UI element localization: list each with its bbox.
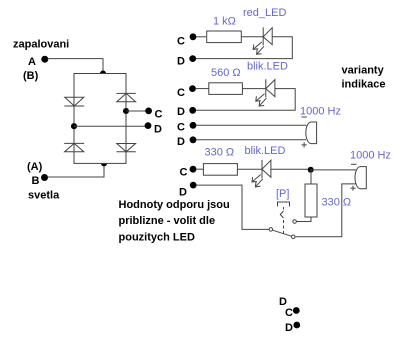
terminal D bridge — [145, 122, 152, 129]
svg-text:Hodnoty odporu jsou: Hodnoty odporu jsou — [119, 199, 230, 211]
svg-text:C: C — [177, 87, 185, 99]
wire node to R5 — [310, 169, 312, 184]
svg-text:D: D — [177, 136, 185, 148]
diode bridge bottom-right — [117, 144, 136, 152]
svg-text:varianty: varianty — [342, 64, 385, 76]
svg-text:D: D — [179, 187, 187, 199]
svg-text:330 Ω: 330 Ω — [322, 197, 352, 209]
push button actuator dashed — [280, 207, 283, 234]
wire D output — [74, 125, 146, 127]
svg-text:D: D — [177, 55, 185, 67]
svg-text:indikace: indikace — [342, 79, 386, 91]
terminal D3 — [190, 136, 197, 143]
terminal C4 — [190, 166, 197, 173]
wire C output — [126, 110, 146, 112]
svg-text:svetla: svetla — [28, 190, 60, 202]
wire C3 to speaker1 — [196, 124, 307, 126]
terminal C2 — [189, 85, 196, 92]
resistor R5 — [305, 184, 317, 217]
label minus SP2 — [351, 163, 357, 165]
resistor R4 — [203, 164, 237, 176]
svg-text:(B): (B) — [23, 70, 39, 82]
wire LED2 loop to D2 — [196, 89, 295, 111]
svg-text:D: D — [285, 322, 293, 334]
svg-text:C: C — [155, 109, 163, 121]
terminal D bottom2 — [293, 322, 300, 329]
wire C1 to R1 — [196, 36, 206, 38]
svg-text:330 Ω: 330 Ω — [205, 147, 235, 159]
svg-text:B: B — [32, 175, 40, 187]
label plus SP2 — [350, 186, 355, 191]
svg-text:560 Ω: 560 Ω — [211, 67, 241, 79]
LED D6 blik — [256, 79, 275, 106]
svg-text:pouzitych LED: pouzitych LED — [119, 232, 195, 244]
diode bridge bottom-left — [64, 143, 84, 151]
terminal A — [41, 56, 48, 63]
svg-text:C: C — [180, 166, 188, 178]
wire R5 to contact — [297, 217, 312, 222]
wire B to bridge bottom — [48, 163, 105, 177]
diode bridge top-left — [64, 97, 84, 106]
speaker SP2 — [355, 167, 366, 189]
svg-text:blik.LED: blik.LED — [247, 61, 288, 73]
wire node to speaker2 — [311, 169, 356, 171]
node bridge mid-left (D) — [71, 123, 77, 129]
svg-text:blik.LED: blik.LED — [245, 145, 286, 157]
LED D7 blik — [252, 160, 271, 187]
contact switch pole — [269, 228, 273, 232]
node bridge bottom — [101, 160, 107, 166]
wire LED4 to node — [271, 168, 311, 170]
terminal C3 — [190, 122, 197, 129]
node bridge mid-right (C) — [123, 108, 129, 114]
wire C4 to R4 — [196, 168, 203, 170]
terminal D2 — [189, 107, 196, 114]
svg-text:C: C — [177, 35, 185, 47]
svg-text:1 kΩ: 1 kΩ — [213, 16, 236, 28]
svg-text:1000 Hz: 1000 Hz — [300, 106, 341, 118]
svg-text:[P]: [P] — [276, 188, 289, 200]
label plus SP1 — [302, 142, 307, 147]
svg-text:red_LED: red_LED — [243, 7, 286, 19]
node LED4/speaker2 — [308, 167, 314, 173]
wire R1 to LED1 — [241, 36, 263, 38]
wire bridge frame — [74, 74, 126, 164]
speaker SP1 — [306, 122, 317, 144]
svg-text:zapalovani: zapalovani — [13, 39, 69, 51]
terminal B — [41, 174, 48, 181]
svg-text:1000 Hz: 1000 Hz — [350, 150, 391, 162]
terminal D4 — [190, 182, 197, 189]
wire C2 to R2 — [196, 88, 209, 90]
terminal C bottom — [293, 307, 300, 314]
wire A to bridge top — [48, 59, 104, 74]
resistor R1 — [207, 31, 242, 43]
wire D4 to switch — [196, 185, 269, 229]
terminal C bridge — [145, 108, 152, 115]
svg-text:C: C — [285, 307, 293, 319]
svg-text:(A): (A) — [27, 161, 43, 173]
push button P — [278, 202, 290, 207]
terminal C1 — [190, 33, 197, 40]
LED D5 red — [253, 27, 272, 54]
terminal D1 — [189, 55, 196, 62]
svg-text:C: C — [177, 121, 185, 133]
svg-text:priblizne - volit dle: priblizne - volit dle — [119, 215, 216, 227]
label minus SP1 — [302, 116, 307, 118]
diode bridge top-right — [117, 93, 136, 101]
wire D3 to speaker1 — [196, 139, 306, 141]
wire R2 to LED2 — [242, 88, 265, 90]
resistor R2 — [209, 83, 243, 95]
switch lever — [273, 230, 292, 236]
svg-text:A: A — [28, 56, 36, 68]
wire speaker2 bottom to switch — [295, 184, 356, 237]
wire R4 to LED4 — [237, 168, 262, 170]
svg-text:D: D — [154, 124, 162, 136]
node bridge top — [100, 70, 106, 76]
wire LED1 loop to D1 — [196, 37, 292, 59]
svg-text:D: D — [177, 106, 185, 118]
contact lower (to speaker) — [291, 235, 295, 239]
contact upper (to R5) — [293, 220, 297, 224]
